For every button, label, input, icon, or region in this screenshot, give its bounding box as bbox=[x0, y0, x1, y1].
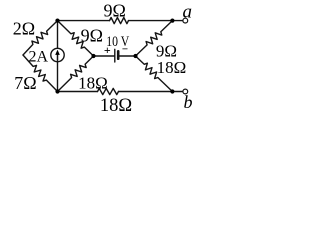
junction dot node C bbox=[91, 54, 95, 58]
resistor 2ohm diagonal bbox=[23, 21, 58, 55]
svg-text:2A: 2A bbox=[29, 48, 49, 65]
svg-text:9Ω: 9Ω bbox=[104, 0, 126, 20]
resistor R 9ohm top zigzag bbox=[110, 18, 129, 24]
svg-text:18Ω: 18Ω bbox=[157, 58, 187, 77]
wire battery left bbox=[94, 55, 115, 57]
junction dot node Ja bbox=[170, 19, 174, 23]
wire current source lower segment bbox=[57, 62, 59, 92]
battery V1 long plate bbox=[114, 49, 116, 62]
svg-text:+: + bbox=[104, 43, 111, 57]
junction dot node B bbox=[55, 89, 59, 93]
current source I1 arrow head bbox=[55, 50, 60, 55]
resistor 18ohm bottom zigzag bbox=[98, 88, 119, 94]
junction dot node T bbox=[55, 19, 59, 23]
svg-text:−: − bbox=[122, 44, 128, 56]
resistor 18ohm left diagonal bbox=[58, 56, 94, 92]
svg-text:a: a bbox=[182, 1, 192, 22]
resistor 7ohm diagonal bbox=[23, 55, 58, 92]
svg-text:b: b bbox=[184, 92, 193, 112]
resistor 9ohm right diagonal bbox=[136, 21, 173, 56]
wire bottom left (node B to resistor) bbox=[58, 91, 98, 93]
resistor 9ohm middle diagonal bbox=[58, 21, 94, 56]
resistor 18ohm right diagonal bbox=[136, 56, 173, 92]
svg-text:7Ω: 7Ω bbox=[14, 73, 36, 93]
wire battery right bbox=[118, 55, 135, 57]
wire bottom right (resistor to terminal b) bbox=[119, 91, 183, 93]
battery V1 short plate bbox=[117, 51, 120, 58]
current source I1 arrow shaft bbox=[57, 53, 59, 60]
wire top left (node T to resistor) bbox=[58, 20, 110, 22]
svg-text:2Ω: 2Ω bbox=[13, 19, 35, 39]
junction dot node R bbox=[133, 54, 137, 58]
svg-text:18Ω: 18Ω bbox=[100, 96, 132, 116]
current source I1 circle bbox=[51, 48, 64, 61]
junction dot node Jb bbox=[170, 89, 174, 93]
svg-text:9Ω: 9Ω bbox=[81, 26, 103, 46]
wire current source upper segment bbox=[57, 21, 59, 49]
wire top right (resistor to terminal a) bbox=[129, 20, 183, 22]
svg-text:18Ω: 18Ω bbox=[78, 74, 108, 93]
terminal a open circle bbox=[183, 18, 188, 23]
terminal b open circle bbox=[183, 89, 188, 94]
